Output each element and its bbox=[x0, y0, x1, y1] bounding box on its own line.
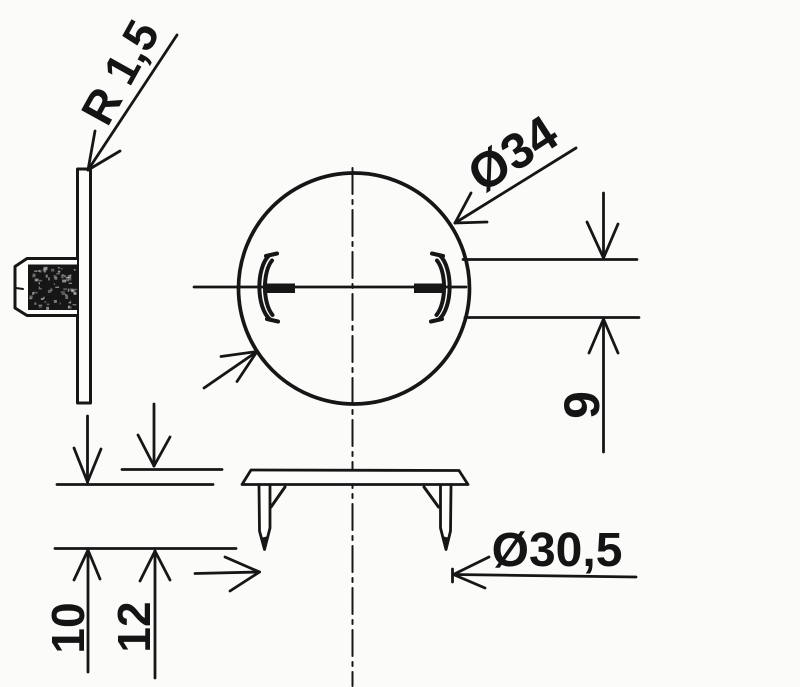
svg-text:10: 10 bbox=[42, 602, 94, 653]
vertical centerline bbox=[352, 168, 354, 686]
dim O30,5 left arrow bbox=[195, 557, 260, 591]
right clip center bar bbox=[414, 284, 443, 294]
svg-text:R 1,5: R 1,5 bbox=[71, 12, 170, 133]
label 10 bbox=[42, 602, 94, 653]
right clip (front view) bbox=[431, 254, 450, 322]
extension line bar top (dim 12) bbox=[122, 468, 222, 471]
svg-text:Ø30,5: Ø30,5 bbox=[492, 524, 623, 577]
dim 9 bottom extension line bbox=[465, 316, 639, 319]
label 9 bbox=[554, 391, 610, 419]
extension line bar bottom (dim 10) bbox=[57, 483, 213, 486]
dim O30,5 right arrow bbox=[453, 557, 637, 588]
label R 1,5 bbox=[71, 12, 170, 133]
dim 10 upper arrow (down) bbox=[74, 416, 101, 482]
label O34 bbox=[458, 104, 568, 203]
dim 9 upper arrow bbox=[587, 193, 618, 258]
side view plate (washer edge view) bbox=[78, 169, 91, 403]
svg-text:12: 12 bbox=[108, 601, 160, 652]
bottom view left leg bbox=[259, 486, 270, 550]
label 12 bbox=[108, 601, 160, 652]
leader arrow R1,5 bbox=[88, 35, 177, 170]
dim 9 top extension line bbox=[463, 258, 637, 261]
circle front view O34 bbox=[239, 173, 470, 404]
extension line leg tips bbox=[55, 547, 236, 550]
horizontal centerline bbox=[194, 286, 466, 289]
dim 12 upper arrow (down) bbox=[138, 404, 170, 466]
dim 10 lower arrow (up) bbox=[74, 550, 100, 672]
leader arrow O34 bbox=[455, 148, 576, 223]
bottom view cap flange bar bbox=[242, 470, 468, 485]
knurled stud (dark textured) bbox=[28, 265, 77, 311]
svg-text:9: 9 bbox=[554, 391, 610, 419]
stud head outline bbox=[15, 259, 77, 316]
bottom view right leg bbox=[441, 486, 452, 550]
bottom view right gusset bbox=[424, 487, 439, 507]
dim 9 lower arrow bbox=[589, 319, 618, 452]
left clip (front view) bbox=[259, 254, 278, 322]
label O30,5 bbox=[492, 524, 623, 577]
left clip center bar bbox=[266, 284, 295, 294]
lower-left pointer arrow at circle bbox=[204, 352, 257, 389]
bottom view left gusset bbox=[271, 487, 285, 507]
dim 12 lower arrow (up) bbox=[140, 551, 170, 678]
